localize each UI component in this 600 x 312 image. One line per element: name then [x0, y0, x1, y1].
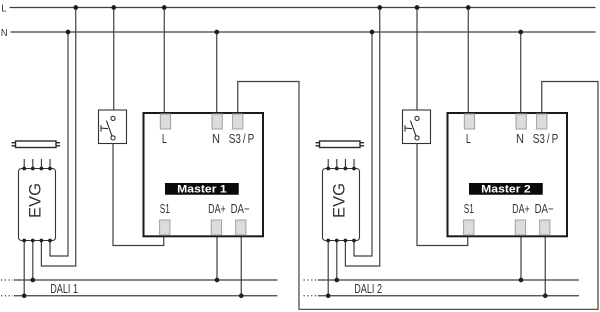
wire EVG2 pin1 to DALI2 minus [327, 241, 329, 296]
svg-text:N: N [1, 27, 8, 39]
svg-text:L: L [466, 132, 471, 146]
wire L to Master2 L [467, 8, 469, 115]
wire N to Master1 N [216, 32, 218, 114]
terminal DA- of U1 [236, 220, 246, 235]
wire L to switch S1a top [113, 8, 115, 117]
svg-text:DA−: DA− [535, 202, 554, 216]
svg-text:S3 / P: S3 / P [533, 132, 559, 146]
terminal S3/P of U1 [233, 114, 243, 129]
wire L to EVG1 pin3 [41, 8, 75, 267]
junction dots on L line [73, 5, 470, 10]
svg-text:N: N [212, 132, 220, 146]
net DALI 2 minus line [304, 295, 580, 297]
svg-text:DALI 1: DALI 1 [50, 281, 78, 296]
net DALI 1 minus line [1, 295, 278, 297]
wire switch S1b to Master2 S1 [417, 140, 468, 246]
junction dots on DALI 2 [326, 278, 548, 298]
wire N to Master2 N [520, 32, 522, 114]
wire EVG1 pin1 to DALI1 minus [23, 241, 25, 296]
wire L line [10, 7, 596, 9]
switch S1b (push-button) [403, 110, 431, 144]
wire L to EVG2 pin3 [345, 8, 379, 267]
svg-text:DA−: DA− [231, 202, 250, 216]
wire N to EVG2 pin4 [354, 32, 372, 256]
wire L to Master1 L [163, 8, 165, 115]
svg-text:S1: S1 [160, 202, 170, 216]
svg-text:DALI 2: DALI 2 [354, 281, 382, 296]
svg-text:S3 / P: S3 / P [229, 132, 255, 146]
ballast EVG2 [323, 159, 360, 242]
svg-text:N: N [516, 132, 524, 146]
terminal DA+ of U2 [515, 220, 525, 235]
terminal L of U2 [464, 114, 474, 129]
terminal S1 of U2 [464, 220, 474, 235]
label Master 1 [165, 183, 239, 195]
DALI master unit U2 [448, 113, 568, 236]
wire Master2 DA+ to DALI2 [520, 235, 522, 280]
svg-text:S1: S1 [464, 202, 474, 216]
terminal N of U1 [212, 114, 222, 129]
net DALI 2 plus line [304, 279, 580, 281]
svg-text:Master 1: Master 1 [177, 184, 227, 196]
svg-text:EVG: EVG [329, 183, 348, 218]
terminal DA+ of U1 [211, 220, 221, 235]
terminal S3/P of U2 [537, 114, 547, 129]
svg-text:Master 2: Master 2 [481, 184, 531, 196]
terminal L of U1 [160, 114, 170, 129]
wire S3/P bus Master1 to Master2 [238, 82, 598, 310]
wire Master1 DA+ to DALI1 [216, 235, 218, 280]
switch S1a (push-button) [99, 110, 127, 144]
terminal S1 of U1 [160, 220, 170, 235]
wire Master2 DA- to DALI2 [544, 235, 546, 295]
ballast EVG1 [19, 159, 56, 242]
junction dots on N line [66, 30, 523, 35]
svg-text:DA+: DA+ [512, 202, 530, 216]
lamp tube EL1 [12, 141, 61, 148]
wire EVG2 pin2 to DALI2 plus [336, 241, 338, 281]
label Master 2 [469, 183, 543, 195]
wire N to EVG1 pin4 [50, 32, 68, 256]
terminal N of U2 [516, 114, 526, 129]
wire L to switch S1b top [416, 8, 418, 117]
junction dots on DALI 1 [22, 278, 244, 298]
svg-text:L: L [1, 2, 7, 14]
terminal DA- of U2 [540, 220, 550, 235]
svg-text:EVG: EVG [25, 183, 44, 218]
svg-text:L: L [162, 132, 167, 146]
DALI master unit U1 [144, 113, 264, 236]
net DALI 1 plus line [1, 279, 278, 281]
lamp tube EL2 [316, 141, 365, 148]
wire switch S1a to Master1 S1 [113, 140, 164, 246]
wire Master1 DA- to DALI1 [240, 235, 242, 295]
wire EVG1 pin2 to DALI1 plus [32, 241, 34, 281]
wire N line [11, 31, 596, 33]
svg-text:DA+: DA+ [208, 202, 226, 216]
